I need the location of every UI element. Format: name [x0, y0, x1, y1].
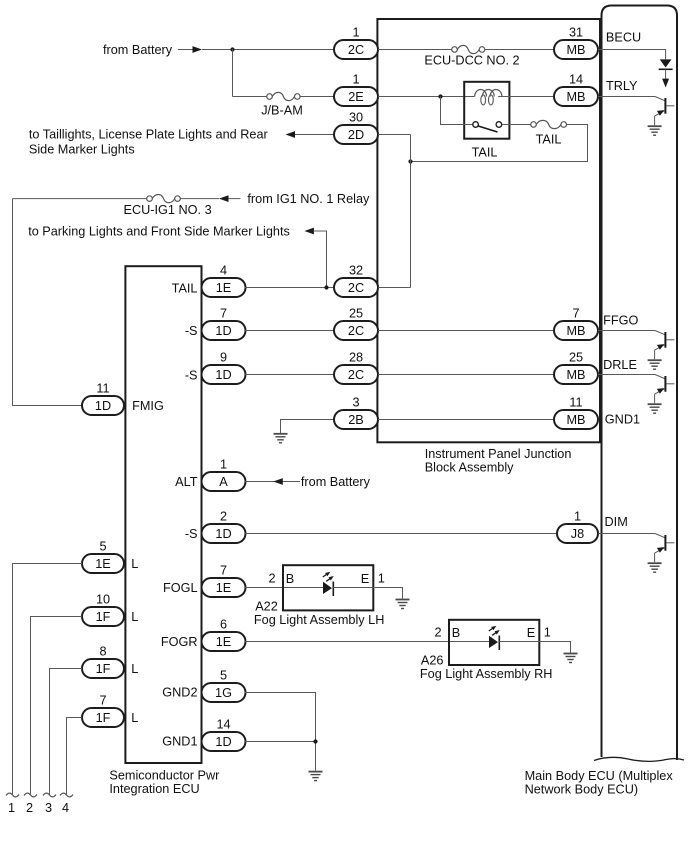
svg-text:Side Marker Lights: Side Marker Lights	[29, 143, 135, 157]
svg-text:TAIL: TAIL	[172, 281, 198, 295]
svg-text:2D: 2D	[348, 128, 364, 142]
connector 2C row6	[334, 278, 378, 297]
connector 2C row1	[334, 40, 378, 59]
Instrument Panel Junction Block Assembly box	[377, 19, 600, 442]
svg-text:Main Body ECU (Multiplex: Main Body ECU (Multiplex	[525, 769, 674, 783]
svg-text:2B: 2B	[348, 413, 364, 427]
wire break mark 3	[43, 793, 56, 797]
svg-text:1F: 1F	[96, 711, 111, 725]
svg-text:5: 5	[99, 540, 106, 554]
wire LED to gnd RH	[499, 642, 570, 653]
connector 2C row8	[334, 365, 378, 384]
svg-text:6: 6	[220, 618, 227, 632]
svg-text:3: 3	[45, 801, 52, 815]
wire vertical 2D to 2C	[410, 135, 412, 288]
svg-text:1D: 1D	[95, 399, 111, 413]
wire parking arrow to vertical	[314, 231, 327, 288]
svg-text:from Battery: from Battery	[301, 475, 371, 489]
connector 1D (GND1)	[202, 732, 246, 751]
svg-text:-S: -S	[185, 324, 198, 338]
svg-text:FMIG: FMIG	[132, 399, 164, 413]
connector MB row2	[554, 87, 598, 106]
node relay branch	[438, 94, 442, 98]
wire arrow to 2D	[295, 134, 334, 136]
svg-text:Fog Light Assembly RH: Fog Light Assembly RH	[420, 667, 553, 681]
svg-text:25: 25	[349, 307, 363, 321]
ground (fog RH)	[564, 653, 578, 655]
svg-text:11: 11	[96, 382, 109, 396]
wire A to arrow	[245, 481, 300, 483]
svg-text:E: E	[361, 572, 369, 586]
svg-text:2C: 2C	[348, 368, 364, 382]
connector 1F (left col 4)	[82, 708, 124, 727]
svg-text:L: L	[131, 610, 138, 624]
svg-text:2: 2	[434, 626, 441, 640]
svg-text:7: 7	[220, 307, 227, 321]
svg-text:J/B-AM: J/B-AM	[261, 103, 303, 117]
relay coil	[475, 90, 502, 97]
svg-text:1: 1	[574, 510, 581, 524]
svg-text:1D: 1D	[215, 368, 231, 382]
svg-text:DIM: DIM	[605, 515, 628, 529]
svg-text:28: 28	[349, 351, 363, 365]
wire branch down to J/B-AM row	[232, 49, 234, 97]
connector J8	[557, 524, 598, 543]
arrow from Battery into wire	[193, 46, 203, 53]
connector 2E	[334, 87, 378, 106]
arrow to parking lights	[304, 228, 314, 235]
svg-text:1E: 1E	[216, 635, 232, 649]
node battery branch junction	[230, 47, 234, 51]
connector 1E (left col 1)	[82, 554, 124, 573]
svg-text:3: 3	[352, 396, 359, 410]
ground (fog LH)	[396, 599, 410, 601]
svg-text:E: E	[527, 626, 535, 640]
svg-text:14: 14	[216, 718, 230, 732]
connector MB row9	[554, 410, 598, 429]
svg-text:1F: 1F	[96, 610, 111, 624]
svg-text:FOGL: FOGL	[163, 581, 198, 595]
svg-text:1: 1	[544, 626, 551, 640]
wire inside fog RH	[450, 641, 489, 643]
svg-text:from IG1 NO. 1 Relay: from IG1 NO. 1 Relay	[247, 192, 370, 206]
svg-text:A22: A22	[255, 599, 278, 613]
svg-text:2: 2	[26, 801, 33, 815]
connector MB row7	[554, 321, 598, 340]
wire IG1 line	[13, 198, 147, 200]
svg-text:-S: -S	[185, 527, 198, 541]
wire BECU to diode	[598, 50, 666, 60]
Main Body ECU box	[602, 6, 678, 761]
wire LED to gnd LH	[333, 588, 402, 599]
svg-text:B: B	[452, 626, 460, 640]
svg-text:11: 11	[569, 396, 582, 410]
svg-text:FOGR: FOGR	[161, 635, 198, 649]
svg-text:TRLY: TRLY	[606, 79, 638, 93]
wire left edge vertical (IG1 to FMIG)	[13, 199, 83, 406]
wire inside fog LH	[284, 587, 323, 589]
svg-text:1: 1	[8, 801, 15, 815]
svg-text:2: 2	[268, 572, 275, 586]
svg-text:Integration ECU: Integration ECU	[109, 782, 199, 796]
connector 1F (left col 3)	[82, 659, 124, 678]
svg-text:1: 1	[378, 572, 385, 586]
wire 1D to J8	[245, 533, 557, 535]
wire GND2 to junction	[245, 693, 316, 771]
svg-text:Semiconductor Pwr: Semiconductor Pwr	[109, 768, 220, 782]
fuse J/B-AM	[267, 94, 273, 100]
wire 1E to 2C32	[245, 287, 334, 289]
svg-text:2: 2	[220, 510, 227, 524]
connector MB row1	[554, 40, 598, 59]
svg-text:1F: 1F	[96, 662, 111, 676]
wire 2C to fuse ECU-DCC	[378, 49, 452, 51]
svg-text:1G: 1G	[215, 686, 232, 700]
node GND junction	[313, 739, 317, 743]
arrow from IG1 relay	[219, 195, 229, 202]
svg-text:14: 14	[569, 73, 583, 87]
svg-text:B: B	[286, 572, 294, 586]
svg-text:MB: MB	[566, 43, 585, 57]
connector 1E (FOGR)	[202, 632, 246, 651]
svg-text:-S: -S	[185, 368, 198, 382]
svg-text:from Battery: from Battery	[103, 43, 173, 57]
wire 1D to 2C28	[245, 374, 334, 376]
svg-text:4: 4	[62, 801, 69, 815]
svg-text:4: 4	[220, 264, 227, 278]
svg-text:ALT: ALT	[175, 475, 198, 489]
node fuse return junction	[408, 159, 412, 163]
svg-text:Instrument Panel Junction: Instrument Panel Junction	[425, 447, 572, 461]
svg-text:A: A	[219, 475, 228, 489]
svg-text:to Taillights, License Plate L: to Taillights, License Plate Lights and …	[29, 128, 269, 142]
wire 2B to MB11	[378, 419, 554, 421]
wire break mark 4	[60, 793, 73, 797]
LED fog RH	[489, 636, 498, 648]
relay switch contacts	[473, 122, 479, 128]
svg-text:A26: A26	[421, 654, 444, 668]
wire relay branch down to switch	[441, 97, 473, 125]
connector MB row8	[554, 365, 598, 384]
svg-text:32: 32	[349, 264, 363, 278]
svg-text:BECU: BECU	[606, 31, 641, 45]
wire coil to MB14	[498, 96, 554, 98]
svg-text:31: 31	[569, 26, 583, 40]
fuse ECU-DCC NO. 2	[452, 47, 458, 53]
wire 1D to 2C25	[245, 330, 334, 332]
wire 2C25 to MB7	[378, 330, 554, 332]
arrow down to transistor	[662, 79, 669, 88]
connector 1D row8	[202, 365, 246, 384]
LED fog LH	[323, 582, 332, 594]
svg-text:9: 9	[220, 351, 227, 365]
arrow from Battery (ALT)	[273, 478, 283, 485]
transistor Q3 (DRLE)	[598, 374, 655, 376]
wire 2D to vertical	[378, 134, 411, 136]
connector 1D row7	[202, 321, 246, 340]
wire break mark 1	[6, 793, 19, 797]
svg-text:FFGO: FFGO	[603, 314, 638, 328]
wire 2E to relay coil	[378, 96, 475, 98]
svg-text:ECU-IG1 NO. 3: ECU-IG1 NO. 3	[124, 203, 212, 217]
diode D1 (BECU)	[660, 59, 672, 67]
fuse TAIL	[531, 122, 537, 128]
svg-text:MB: MB	[566, 413, 585, 427]
svg-text:1D: 1D	[215, 735, 231, 749]
svg-text:7: 7	[572, 307, 579, 321]
connector 1D row11	[202, 524, 246, 543]
connector 1G (GND2)	[202, 683, 246, 702]
svg-text:10: 10	[96, 593, 110, 607]
svg-text:1: 1	[352, 73, 359, 87]
wire left col 1	[13, 564, 83, 795]
wire left col 4	[67, 718, 83, 795]
transistor Q2 (FFGO)	[598, 330, 655, 332]
fuse ECU-IG1 NO. 3	[147, 196, 153, 202]
svg-text:2C: 2C	[348, 43, 364, 57]
svg-text:2E: 2E	[348, 90, 364, 104]
connector 1E (TAIL)	[202, 278, 246, 297]
ground (2B row)	[274, 433, 288, 435]
svg-text:7: 7	[99, 694, 106, 708]
arrow to taillights	[286, 131, 296, 138]
wire fuse to MB31	[485, 49, 554, 51]
svg-text:Block Assembly: Block Assembly	[425, 461, 514, 475]
relay TAIL box	[464, 82, 509, 139]
svg-text:1E: 1E	[216, 581, 232, 595]
svg-text:MB: MB	[566, 90, 585, 104]
svg-text:TAIL: TAIL	[536, 132, 562, 146]
wire switch to fuse TAIL	[502, 124, 531, 126]
connector A (ALT)	[202, 472, 246, 491]
transistor Q1 (TRLY)	[598, 96, 655, 98]
wire break mark 2	[24, 793, 37, 797]
svg-text:DRLE: DRLE	[603, 358, 637, 372]
svg-text:MB: MB	[566, 368, 585, 382]
fog light assembly LH box	[283, 565, 373, 610]
connector 1E (FOGL)	[202, 578, 246, 597]
svg-text:2C: 2C	[348, 281, 364, 295]
transistor Q4 (DIM)	[598, 533, 655, 535]
wire left col 3	[50, 669, 83, 795]
node parking junction	[324, 285, 328, 289]
wire 2C32 to vertical410	[378, 287, 411, 289]
svg-text:L: L	[131, 711, 138, 725]
svg-text:25: 25	[569, 351, 583, 365]
svg-text:1E: 1E	[95, 557, 111, 571]
svg-text:L: L	[131, 662, 138, 676]
ground (GND1/GND2)	[309, 771, 323, 773]
svg-text:L: L	[131, 557, 138, 571]
wire fuse TAIL return path	[411, 125, 588, 162]
wire 1E to fog LH box	[245, 587, 283, 589]
svg-text:1D: 1D	[215, 527, 231, 541]
svg-text:to Parking Lights and Front Si: to Parking Lights and Front Side Marker …	[28, 225, 290, 239]
connector 1D (FMIG)	[82, 396, 124, 415]
wire 1E to fog RH box	[245, 641, 449, 643]
wire branch to J/B-AM fuse	[233, 96, 267, 98]
wire fuse to arrow	[180, 198, 219, 200]
svg-text:TAIL: TAIL	[472, 146, 498, 160]
connector 1F (left col 2)	[82, 607, 124, 626]
svg-text:1D: 1D	[215, 324, 231, 338]
svg-text:J8: J8	[571, 527, 584, 541]
connector 2B	[334, 410, 378, 429]
svg-text:30: 30	[349, 111, 363, 125]
svg-text:7: 7	[220, 564, 227, 578]
svg-text:1E: 1E	[216, 281, 232, 295]
wire J/B-AM to 2E	[300, 96, 334, 98]
svg-text:5: 5	[220, 669, 227, 683]
svg-text:8: 8	[99, 645, 106, 659]
svg-text:Network Body ECU): Network Body ECU)	[525, 783, 639, 797]
svg-text:GND2: GND2	[162, 686, 197, 700]
svg-text:MB: MB	[566, 324, 585, 338]
connector 2D	[334, 125, 378, 144]
wire 2B to ground	[281, 420, 335, 434]
svg-text:GND1: GND1	[605, 413, 640, 427]
connector 2C row7	[334, 321, 378, 340]
wire GND1 to junction	[245, 741, 316, 743]
svg-text:GND1: GND1	[162, 735, 197, 749]
wire battery to 2C	[202, 49, 334, 51]
fog light assembly RH box	[449, 620, 539, 665]
wire 2C28 to MB25	[378, 374, 554, 376]
svg-text:2C: 2C	[348, 324, 364, 338]
svg-text:Fog Light Assembly LH: Fog Light Assembly LH	[254, 613, 384, 627]
Main Body ECU torn bottom edge	[594, 757, 684, 761]
Semiconductor Pwr Integration ECU box	[125, 266, 201, 763]
svg-text:1: 1	[220, 458, 227, 472]
svg-text:ECU-DCC NO. 2: ECU-DCC NO. 2	[424, 53, 519, 67]
svg-text:1: 1	[352, 26, 359, 40]
wire left col 2	[31, 617, 83, 795]
